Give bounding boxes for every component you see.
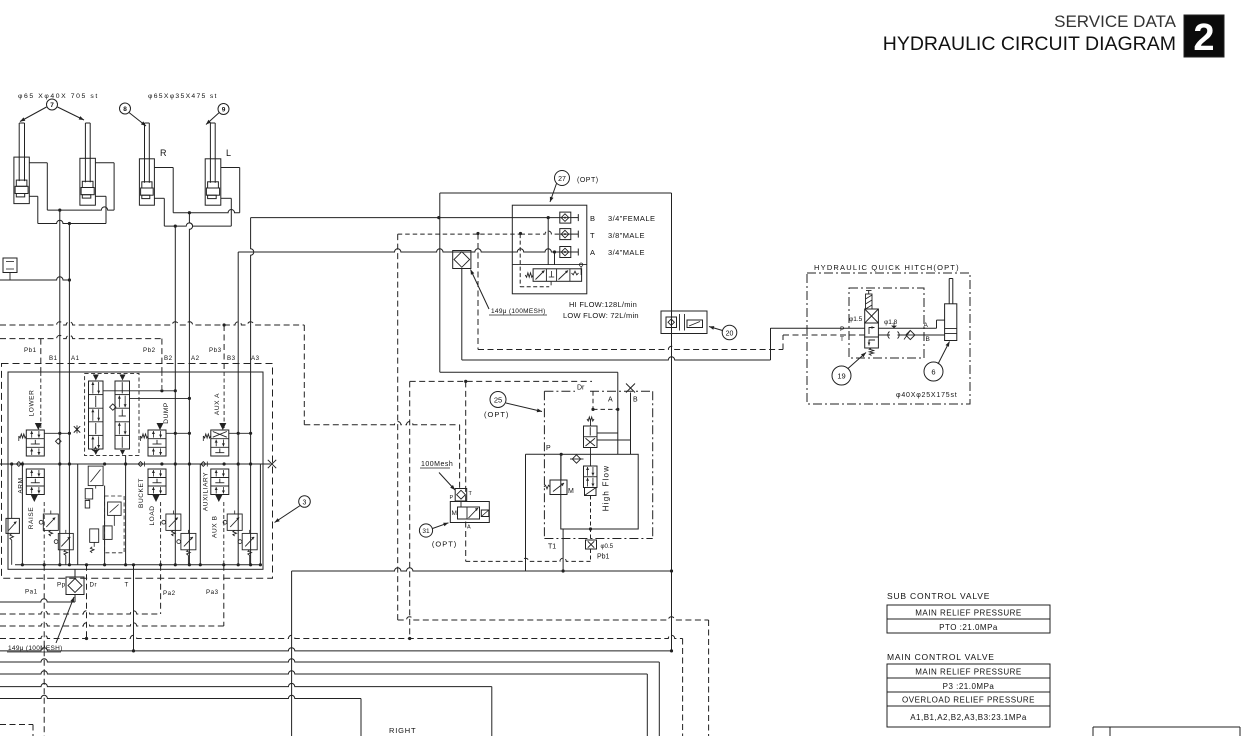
label OPT for 31 <box>432 540 457 549</box>
shuttle diamond center <box>110 404 116 410</box>
wire solid bus y662 <box>0 659 659 736</box>
wire line from opt27 left edge to high flow A <box>440 372 620 454</box>
wire dashed drain x409 <box>408 381 411 640</box>
svg-text:100Mesh: 100Mesh <box>421 461 453 468</box>
main relief valve left <box>6 462 19 564</box>
center pilot section dashed box <box>85 373 139 455</box>
svg-text:B: B <box>633 397 638 404</box>
svg-text:φ1.5: φ1.5 <box>849 316 863 323</box>
label cylinder size phi65x35x475 <box>148 93 218 100</box>
outer box opt27 left edge <box>439 193 441 372</box>
svg-text:RAISE: RAISE <box>28 507 35 530</box>
valve section BUCKET lower spool <box>148 469 166 495</box>
filter solenoid31 <box>450 489 473 502</box>
svg-text:φ40Xφ25X175st: φ40Xφ25X175st <box>896 392 958 399</box>
label port T <box>840 336 844 343</box>
callout circle 7 <box>20 99 84 122</box>
wire quick hitch A line <box>878 320 944 328</box>
wire Dr dashed into valve <box>591 391 617 411</box>
svg-text:SUB CONTROL VALVE: SUB CONTROL VALVE <box>887 591 990 601</box>
wire T1 drop <box>562 529 565 573</box>
label RIGHT <box>389 726 416 735</box>
svg-text:φ65Xφ35X475 st: φ65Xφ35X475 st <box>148 93 218 100</box>
outer box opt27 top edge <box>440 192 672 194</box>
svg-text:A1,B1,A2,B2,A3,B3:23.1MPa: A1,B1,A2,B2,A3,B3:23.1MPa <box>910 713 1027 722</box>
wire dashed bus y614 to Pa2 <box>0 611 161 614</box>
filter 149u in line y252 <box>453 251 471 269</box>
label A1 port <box>71 355 80 362</box>
svg-text:Dr: Dr <box>577 385 585 392</box>
svg-text:T: T <box>125 582 129 589</box>
label Pb2 port <box>143 347 156 354</box>
callout circle 19 <box>832 353 866 386</box>
cylinder 6 quick hitch <box>945 279 957 341</box>
wire pilot dashed inside to spools <box>41 372 224 430</box>
svg-text:BUCKET: BUCKET <box>138 478 145 508</box>
partial table bottom right <box>1093 727 1240 736</box>
svg-text:LOAD: LOAD <box>149 505 156 525</box>
wire dashed drain x397 <box>397 234 399 620</box>
label coupler B 3/4 female <box>590 214 655 223</box>
label Pa1 port <box>25 589 38 596</box>
svg-text:8: 8 <box>123 106 127 113</box>
wire opt27 internal rail y264 <box>512 264 587 266</box>
overload relief pair AUXILIARY <box>223 511 257 565</box>
label A B high flow <box>608 397 638 404</box>
label Pb1 bottom <box>597 554 610 561</box>
relief valve high flow M <box>544 454 574 495</box>
valve block 20 (coupler on trunk) <box>661 311 707 334</box>
wire dashed drain y620 from x397 <box>398 617 709 736</box>
label coupler T 3/8 male <box>590 231 645 240</box>
callout circle 8 <box>120 103 147 126</box>
svg-text:T1: T1 <box>548 544 556 551</box>
svg-text:AUX B: AUX B <box>212 515 219 538</box>
label B3 port <box>227 355 236 362</box>
inner box high flow <box>561 454 638 529</box>
wire cylinder R/L manifold <box>154 168 239 228</box>
wire pilot dashed center to Pb1 <box>589 496 592 541</box>
svg-text:(OPT): (OPT) <box>484 410 509 419</box>
svg-text:MAIN CONTROL VALVE: MAIN CONTROL VALVE <box>887 652 995 662</box>
svg-text:φ65 Xφ40X 705 st: φ65 Xφ40X 705 st <box>18 93 99 100</box>
svg-text:A: A <box>467 525 471 531</box>
wire solid bus y698 <box>0 695 361 736</box>
wire main rail y464 <box>0 460 276 468</box>
svg-text:High Flow: High Flow <box>602 465 611 511</box>
wire Pa1 dashed drop <box>43 565 45 736</box>
svg-text:M: M <box>568 488 574 495</box>
svg-text:AUXILIARY: AUXILIARY <box>203 472 210 511</box>
valve section AUXILIARY upper spool <box>203 430 229 456</box>
cylinder 8 (R) <box>139 123 154 205</box>
wire section return risers <box>22 456 260 565</box>
wire Dr dashed drop <box>85 565 88 640</box>
wire dashed drain y381 to Dr <box>410 380 592 383</box>
svg-text:19: 19 <box>837 372 845 381</box>
svg-text:Pb3: Pb3 <box>209 347 222 354</box>
label P high flow <box>546 445 551 452</box>
wire pilot dashed bus y325 <box>0 322 304 327</box>
wire pump line from filter to quick hitch P <box>462 269 865 361</box>
inner box main control valve <box>8 372 263 569</box>
svg-text:L: L <box>226 148 231 158</box>
svg-text:RIGHT: RIGHT <box>389 726 416 735</box>
svg-text:B: B <box>590 214 595 223</box>
plug X on B port <box>626 384 635 393</box>
outer dashed box high flow <box>544 391 652 538</box>
svg-text:ARM: ARM <box>17 477 24 493</box>
wire B1 riser <box>59 210 61 565</box>
inner box opt27 <box>512 205 587 294</box>
svg-text:Pb1: Pb1 <box>597 554 610 561</box>
wire center spool top links <box>103 389 191 400</box>
valve section ARM lower spool <box>26 469 44 495</box>
solenoid valve 27 (hi/lo flow) <box>525 263 583 281</box>
cylinder 9 (L) <box>205 123 221 205</box>
label phi1.8 <box>884 319 898 326</box>
wire pilot dashed Pb3 drop <box>223 325 225 372</box>
wire pilot dashed Pb1 Pb2 feed <box>0 335 162 372</box>
wire pilot dashed riser x304 to solenoid31 <box>304 325 459 488</box>
svg-text:T: T <box>590 231 595 240</box>
wire pump inlet line <box>0 599 75 602</box>
label OPT for 25 <box>484 410 509 419</box>
component small port block left edge <box>3 258 17 280</box>
label hi flow rate <box>563 300 639 320</box>
svg-text:A: A <box>608 397 613 404</box>
check valve high flow <box>570 455 584 463</box>
svg-text:φ0.5: φ0.5 <box>601 543 614 550</box>
svg-text:31: 31 <box>422 528 430 535</box>
table main control valve <box>887 652 1050 727</box>
wire dashed bus y626 to Pa3 <box>0 623 224 626</box>
svg-text:Pb1: Pb1 <box>24 347 37 354</box>
svg-text:3/4”FEMALE: 3/4”FEMALE <box>608 214 655 223</box>
wire A2 riser <box>189 213 192 565</box>
svg-text:AUX A: AUX A <box>214 393 221 415</box>
label 100Mesh <box>420 461 455 490</box>
outer dashed box main control valve <box>2 364 273 579</box>
center spool left <box>89 375 104 456</box>
center spool right <box>115 375 130 456</box>
table sub control valve <box>887 591 1050 633</box>
label port B <box>926 336 930 343</box>
valve section BUCKET upper spool <box>141 430 167 456</box>
wire A1 riser <box>68 224 70 565</box>
dashed box bottom left corner <box>0 725 33 736</box>
wire bottom rail y564.8 <box>15 563 262 566</box>
label Pa2 port <box>163 590 176 597</box>
wire dashed tank line to quick hitch T <box>478 234 865 350</box>
svg-text:Dr: Dr <box>90 582 98 589</box>
svg-text:Pa1: Pa1 <box>25 589 38 596</box>
wire T drop <box>132 565 135 653</box>
svg-text:9: 9 <box>222 107 226 114</box>
lower center pilot cluster <box>85 466 124 553</box>
label T1 <box>548 544 556 551</box>
label port A <box>924 322 929 329</box>
solenoid valve 31 <box>450 502 489 531</box>
throttle star mark <box>74 425 80 433</box>
svg-text:HYDRAULIC QUICK HITCH(OPT): HYDRAULIC QUICK HITCH(OPT) <box>814 263 960 272</box>
wire main vertical x671 (right trunk) <box>671 193 673 651</box>
label cylinder size phi65x40x705 <box>18 93 99 100</box>
label cylinder6 size <box>896 392 958 399</box>
svg-text:Pa3: Pa3 <box>206 589 219 596</box>
svg-text:B1: B1 <box>49 355 58 362</box>
svg-text:P: P <box>840 326 844 333</box>
svg-text:SERVICE DATA: SERVICE DATA <box>1054 12 1177 31</box>
label Dr port <box>90 582 98 589</box>
wire solid bus y674 <box>0 671 647 736</box>
valve section AUXILIARY top arrow <box>219 423 226 430</box>
svg-text:MAIN RELIEF PRESSURE: MAIN RELIEF PRESSURE <box>915 668 1021 677</box>
callout circle 27 <box>550 171 570 203</box>
svg-text:3/4”MALE: 3/4”MALE <box>608 248 645 257</box>
valve section ARM upper spool <box>19 430 45 456</box>
svg-text:P3 :21.0MPa: P3 :21.0MPa <box>943 682 995 691</box>
wire A3 net top line y218 <box>251 216 560 565</box>
wire coupler risers to valve27 <box>520 216 556 287</box>
label 149u 100mesh bottom <box>5 597 74 653</box>
svg-text:PTO :21.0MPa: PTO :21.0MPa <box>939 623 998 632</box>
svg-text:149μ (100MESH): 149μ (100MESH) <box>491 308 546 315</box>
label OPT for 27 <box>577 177 599 184</box>
label coupler A 3/4 male <box>590 248 645 257</box>
label R <box>160 148 167 158</box>
svg-text:HYDRAULIC CIRCUIT DIAGRAM: HYDRAULIC CIRCUIT DIAGRAM <box>883 33 1176 55</box>
wire B3 net line y252 <box>238 249 559 565</box>
svg-text:LOWER: LOWER <box>29 390 36 417</box>
label Pa3 port <box>206 589 219 596</box>
callout circle 25 <box>490 392 542 413</box>
wire high flow B riser <box>630 393 632 455</box>
wire tank return y571 <box>292 568 674 736</box>
svg-text:OVERLOAD RELIEF PRESSURE: OVERLOAD RELIEF PRESSURE <box>902 696 1035 705</box>
outer dashed box quick hitch <box>807 273 970 404</box>
svg-text:7: 7 <box>50 102 54 109</box>
coupler B <box>560 212 579 223</box>
overload relief pair ARM <box>39 511 73 565</box>
svg-text:M: M <box>452 510 457 517</box>
main spool high flow <box>584 417 631 496</box>
cylinder 7 right (boom) <box>80 123 96 205</box>
callout circle 3 <box>275 496 311 523</box>
label Pp port <box>57 582 66 589</box>
callout circle 6 <box>924 342 950 382</box>
svg-text:2: 2 <box>1193 17 1214 59</box>
wire dashed bus y638.5 <box>0 635 683 736</box>
svg-text:Pa2: Pa2 <box>163 590 176 597</box>
callout circle 9 <box>206 104 229 125</box>
svg-text:P: P <box>546 445 551 452</box>
valve section ARM bottom arrow and pilot <box>31 495 44 565</box>
wire solid bus y650 <box>0 648 673 653</box>
wire B2 riser <box>174 226 176 565</box>
wire solid bus y686 <box>0 683 492 736</box>
svg-text:Pb2: Pb2 <box>143 347 156 354</box>
label T port <box>125 582 129 589</box>
valve section ARM pilot check at rail <box>16 462 22 467</box>
valve section AUXILIARY pilot check at rail <box>201 462 207 467</box>
wire dashed Pb1 drop <box>590 549 592 561</box>
header service data title <box>883 12 1177 55</box>
svg-text:A3: A3 <box>251 355 260 362</box>
svg-text:20: 20 <box>726 330 734 337</box>
svg-text:Pp: Pp <box>57 582 66 589</box>
label B1 port <box>49 355 58 362</box>
label hydraulic quick hitch title <box>814 263 960 272</box>
label B2 port <box>164 355 173 362</box>
svg-text:φ1.8: φ1.8 <box>884 319 898 326</box>
svg-text:P: P <box>450 495 454 501</box>
wire left edge line y280 <box>0 277 71 282</box>
svg-text:(OPT): (OPT) <box>432 540 457 549</box>
svg-text:R: R <box>160 148 167 158</box>
svg-text:25: 25 <box>494 396 502 405</box>
valve section BUCKET pilot check at rail <box>138 462 144 467</box>
svg-text:LOW FLOW: 72L/min: LOW FLOW: 72L/min <box>563 311 639 320</box>
label L <box>226 148 231 158</box>
label Dr high flow <box>577 385 585 392</box>
shuttle diamond lower left <box>56 439 62 445</box>
svg-text:(OPT): (OPT) <box>577 177 599 184</box>
callout circle 31 <box>419 523 448 537</box>
label port P phi1.5 <box>840 316 863 333</box>
cylinder 7 left (boom) <box>14 123 29 204</box>
filter Pp 149u <box>66 569 84 602</box>
label A2 port <box>191 355 200 362</box>
valve section AUXILIARY lower spool <box>211 469 229 495</box>
wire cylinder7 ports manifold <box>29 163 114 225</box>
valve section BUCKET top arrow <box>157 423 164 430</box>
svg-text:A2: A2 <box>191 355 200 362</box>
valve section ARM top arrow <box>35 423 42 430</box>
svg-text:3: 3 <box>303 499 307 506</box>
label 149u 100mesh top <box>471 270 548 316</box>
svg-text:A: A <box>590 248 595 257</box>
wire Pa2 dashed drop <box>160 565 162 614</box>
orifice phi0.5 Pb1 <box>586 540 614 550</box>
wire dashed T line solenoid31 x466 <box>465 381 467 561</box>
svg-text:3/8”MALE: 3/8”MALE <box>608 231 645 240</box>
wire quick hitch B line with orifice and check valve <box>878 330 944 339</box>
svg-text:DUMP: DUMP <box>163 402 170 424</box>
svg-text:T: T <box>840 336 844 343</box>
wire spool port connectors y433 <box>44 432 252 435</box>
svg-text:B: B <box>926 336 930 343</box>
solenoid valve 19 <box>865 291 879 356</box>
label Pb3 port <box>209 347 222 354</box>
wire dashed bus A port solenoid31 to Pb1 <box>466 558 591 561</box>
wire P line into high flow <box>526 453 563 571</box>
svg-text:B3: B3 <box>227 355 236 362</box>
svg-text:HI FLOW:128L/min: HI FLOW:128L/min <box>569 300 637 309</box>
inner dashed box quick hitch valve <box>849 288 924 358</box>
svg-text:6: 6 <box>931 368 935 377</box>
svg-text:A1: A1 <box>71 355 80 362</box>
overload relief pair BUCKET <box>162 511 196 565</box>
label A3 port <box>251 355 260 362</box>
callout circle 20 <box>709 325 737 340</box>
valve section AUXILIARY bottom arrow and pilot <box>215 495 224 565</box>
coupler T <box>398 229 579 240</box>
wire Pa3 dashed drop <box>223 565 225 626</box>
svg-text:27: 27 <box>558 176 566 183</box>
label Pb1 port <box>24 347 37 354</box>
svg-text:MAIN RELIEF PRESSURE: MAIN RELIEF PRESSURE <box>915 609 1021 618</box>
coupler A <box>560 247 579 258</box>
header chapter number box 2 <box>1184 15 1224 59</box>
svg-text:B2: B2 <box>164 355 173 362</box>
valve section BUCKET bottom arrow and pilot <box>153 495 161 565</box>
